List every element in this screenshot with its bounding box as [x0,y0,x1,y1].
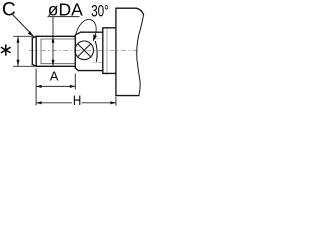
oDA shelf + leader [48,17,80,67]
sphere back arc [95,42,97,62]
star symbol [2,45,11,55]
C arrow [28,31,34,36]
H extension right [115,97,117,106]
center line [29,49,138,51]
head outline [75,32,103,70]
oDA arrows [52,36,55,43]
star up/down [17,36,20,43]
dimension lines [13,15,116,106]
30 deg arc leader [76,19,96,39]
ball circle [75,41,94,60]
ring cup [103,28,116,74]
A dim line [36,85,75,87]
svg-text:A: A [50,68,59,83]
H dim line with gap for letter [36,102,116,104]
X cross in circle [78,44,91,57]
svg-text:øDA: øDA [48,0,83,19]
thin pivot lines behind ball [93,39,103,63]
shank outline [32,36,75,66]
C leader [13,15,33,36]
star dim line [17,36,19,66]
svg-text:30°: 30° [91,2,109,20]
break line [137,15,144,96]
A arrows [36,85,42,88]
svg-text:H: H [73,92,81,108]
big part [116,8,144,95]
thread lines + runout [41,39,75,64]
arrowheads [17,31,116,104]
H arrows [36,101,42,104]
thin bore line in ring [106,28,108,74]
star extensions [13,36,36,66]
30deg arc arrow [93,34,97,42]
svg-text:C: C [2,0,16,20]
A extensions [36,69,75,106]
